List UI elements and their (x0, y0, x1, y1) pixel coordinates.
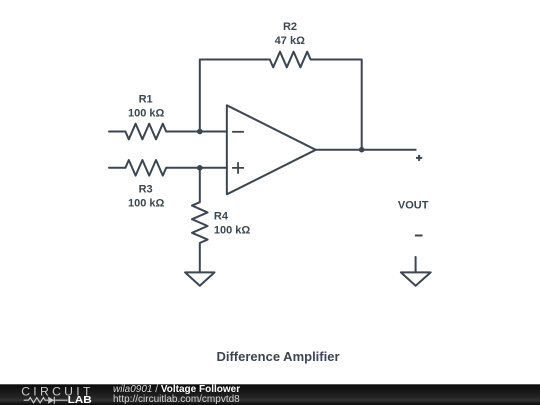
svg-text:47 kΩ: 47 kΩ (275, 35, 305, 47)
svg-text:Difference Amplifier: Difference Amplifier (216, 349, 339, 364)
svg-text:100 kΩ: 100 kΩ (128, 107, 165, 119)
svg-text:100 kΩ: 100 kΩ (128, 197, 165, 209)
svg-text:http://circuitlab.com/cmpvtd8: http://circuitlab.com/cmpvtd8 (113, 394, 240, 405)
svg-text:R1: R1 (139, 93, 153, 105)
svg-text:LAB: LAB (68, 394, 93, 405)
svg-text:VOUT: VOUT (398, 200, 429, 212)
svg-text:R2: R2 (283, 21, 297, 33)
svg-text:R3: R3 (139, 183, 153, 195)
svg-text:R4: R4 (214, 211, 229, 223)
svg-text:100 kΩ: 100 kΩ (214, 225, 251, 237)
